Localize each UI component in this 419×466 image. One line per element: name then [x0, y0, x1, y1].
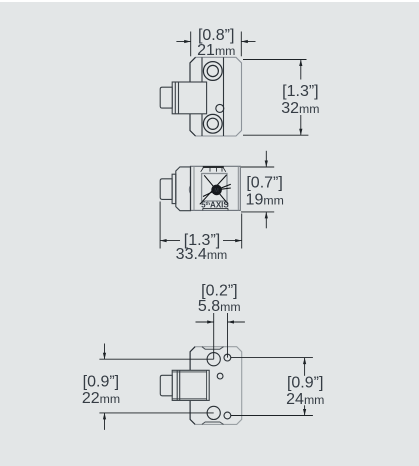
label line lower-left	[203, 190, 217, 197]
dimension 22mm (left, hole centers)	[99, 344, 213, 430]
extension line bottom of 19mm	[241, 211, 274, 213]
top view lower counterbore hole outer	[203, 114, 222, 133]
extension line right of 21mm dim	[240, 32, 242, 57]
dim arrow line right	[241, 41, 255, 43]
arrowhead up to bottom line	[265, 212, 268, 219]
arrowhead left	[160, 239, 167, 242]
top view connector body block	[172, 82, 206, 114]
arrow line right	[228, 321, 245, 323]
bottom view bottom slot	[202, 422, 224, 424]
arrowhead down to top line	[265, 161, 268, 168]
leader line lower small hole	[231, 415, 313, 417]
label center dark circle	[211, 185, 222, 196]
side view clamp tab black bar	[203, 166, 224, 168]
bottom notch tick right	[227, 208, 229, 210]
bottom view body outline	[190, 347, 242, 425]
side view body inner line right	[237, 166, 239, 210]
arrowhead right pointing left	[241, 40, 248, 43]
extension line left of 21mm dim	[190, 32, 192, 57]
svg-text:[0.7”]: [0.7”]	[246, 175, 282, 192]
bottom view lower big hole	[207, 406, 220, 419]
side view boss bump arc	[189, 186, 191, 194]
dimension 5.8mm (hole spacing)	[196, 313, 245, 359]
connector nut line 2	[179, 370, 181, 400]
tab tick diagonal right	[223, 168, 225, 172]
svg-text:5.8mm: 5.8mm	[198, 298, 241, 315]
svg-text:19mm: 19mm	[246, 191, 284, 208]
top view body outline	[190, 57, 242, 136]
leader line from small hole	[227, 313, 229, 358]
side view body left edge emphasized	[190, 166, 192, 210]
arrowhead up	[299, 60, 302, 67]
connector inner border bottom	[172, 398, 206, 400]
top view connector nut line 2	[178, 82, 180, 114]
connector nut line 1	[176, 370, 178, 400]
arrowhead down	[299, 129, 302, 136]
extension line left of 33.4	[159, 202, 161, 249]
arrow stem bottom	[265, 212, 267, 228]
text backing box	[285, 376, 327, 406]
extension line top of 19mm	[241, 166, 274, 168]
leader line upper small hole	[231, 357, 313, 359]
arrow stem bottom	[104, 413, 106, 430]
dimension 19mm (side view height)	[241, 151, 274, 229]
label whisker right 1	[217, 184, 231, 190]
label whisker right 2	[217, 188, 231, 190]
extension line top of 32mm dim	[243, 59, 307, 61]
bottom view upper big hole	[207, 353, 220, 366]
extension line right of 33.4	[241, 214, 243, 249]
arrowhead pointing left	[228, 320, 235, 323]
bottom view lower small hole	[224, 412, 231, 419]
svg-text:33.4mm: 33.4mm	[176, 246, 228, 263]
arrowhead up to top line	[303, 358, 306, 365]
side view body inner line left	[193, 166, 195, 210]
arrow stem top	[104, 344, 106, 360]
top view connector tip	[160, 87, 172, 108]
svg-text:21mm: 21mm	[197, 42, 235, 59]
tab tick 3	[221, 168, 223, 172]
leader line from big hole	[213, 313, 215, 359]
top view raised strip line left	[201, 57, 203, 136]
extension line bottom of 32mm dim	[243, 134, 308, 136]
arrow stem top	[304, 358, 306, 377]
bottom view left edge emphasized	[190, 347, 195, 425]
arrow stem bottom	[304, 397, 306, 416]
label diagonal TR-BL	[200, 175, 227, 204]
arrow line left	[196, 321, 214, 323]
leader line lower big hole	[99, 412, 213, 414]
top view small pin hole	[216, 104, 224, 112]
svg-text:[1.3”]: [1.3”]	[282, 83, 318, 100]
tab tick diagonal left	[201, 168, 204, 172]
dimension 24mm (right, small holes)	[231, 358, 313, 416]
svg-text:24mm: 24mm	[286, 391, 324, 408]
side view main body	[191, 166, 241, 210]
connector inner border top	[172, 371, 206, 373]
dimension 33.4mm (side view width)	[160, 202, 242, 249]
bottom view connector tip	[160, 375, 172, 396]
arrowhead right	[235, 239, 242, 242]
side view connector ring block	[172, 174, 176, 203]
svg-text:[0.9”]: [0.9”]	[287, 374, 323, 391]
bottom view top slot	[202, 347, 224, 350]
bottom notch tick left	[202, 208, 204, 210]
svg-text:[0.9”]: [0.9”]	[83, 373, 119, 390]
arrowhead left pointing right	[184, 40, 191, 43]
top view connector nut line 1	[174, 82, 176, 114]
arrowhead down to bottom line	[303, 409, 306, 416]
bottom view connector body block	[172, 370, 209, 400]
side view connector nut (chamfered block)	[176, 167, 191, 211]
label diagonal TL-BR	[204, 175, 228, 204]
text backing box	[281, 80, 321, 116]
text backing box	[180, 233, 223, 247]
arrowhead pointing right	[207, 320, 214, 323]
svg-text:M: M	[214, 188, 218, 194]
bottom view center pin hole	[217, 373, 223, 379]
arrow stem top	[265, 151, 267, 167]
top view upper counterbore hole outer	[203, 62, 222, 81]
vertical dim line 32mm	[300, 60, 302, 136]
svg-text:22mm: 22mm	[82, 390, 120, 407]
dimension 21mm (top width)	[176, 32, 255, 57]
tab tick 1	[209, 168, 211, 172]
svg-text:[0.2”]: [0.2”]	[201, 283, 237, 300]
dim line 33.4	[160, 240, 242, 242]
svg-text:32mm: 32mm	[281, 100, 319, 117]
dimension 32mm (right height of top view)	[243, 60, 308, 136]
side view connector tip	[160, 179, 172, 200]
top view raised strip line right	[223, 57, 225, 136]
arrowhead up	[103, 413, 106, 420]
bottom notch line	[203, 207, 228, 209]
leader line upper big hole	[99, 358, 213, 360]
arrowhead down	[103, 353, 106, 360]
dim arrow line left	[176, 41, 190, 43]
bottom view upper small hole	[224, 354, 231, 361]
top view upper counterbore hole inner	[207, 65, 218, 76]
top view left edge emphasized	[190, 57, 196, 136]
top view lower counterbore hole inner	[207, 118, 218, 129]
connector inner border vertical	[206, 370, 208, 400]
label square border	[202, 174, 227, 202]
tab tick 2	[216, 168, 218, 172]
